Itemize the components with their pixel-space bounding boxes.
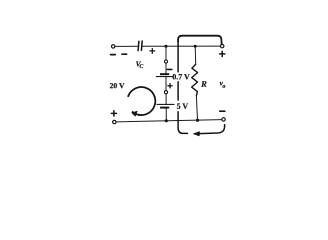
svg-text:o: o [222,83,225,90]
svg-text:R: R [200,79,207,89]
svg-text:C: C [139,64,143,70]
svg-text:5 V: 5 V [177,102,189,111]
svg-text:20 V: 20 V [110,81,125,90]
svg-text:0.7 V: 0.7 V [172,72,190,81]
